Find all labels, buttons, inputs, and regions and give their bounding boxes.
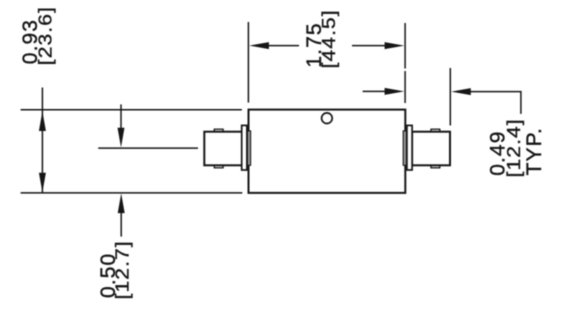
left connector flange xyxy=(242,125,247,170)
right connector barrel xyxy=(412,132,450,166)
arrowhead down centerline xyxy=(118,128,125,148)
main body xyxy=(249,110,406,193)
dim line 1.75 right segment xyxy=(352,45,387,47)
right connector gray collar xyxy=(403,131,406,165)
dimension line 0.93 vertical xyxy=(41,88,43,193)
arrowhead up 0.93 xyxy=(39,111,46,131)
centerline segment xyxy=(98,147,198,149)
dim text 0.93 xyxy=(19,6,56,65)
dim line 0.50 shaft xyxy=(120,213,122,237)
extension line 1.75 right xyxy=(404,23,406,69)
arrow right 0.49 xyxy=(363,90,386,92)
svg-text:[12.7]: [12.7] xyxy=(113,240,134,299)
left connector lug top xyxy=(214,129,223,132)
extension line 1.75 left xyxy=(247,22,249,103)
svg-text:[44.5]: [44.5] xyxy=(319,9,340,68)
dim line 1.75 left segment xyxy=(266,45,299,47)
extension line top edge left xyxy=(21,109,242,111)
left connector gray collar xyxy=(247,131,250,165)
dim text 0.49 TYP xyxy=(487,118,546,177)
svg-text:TYP.: TYP. xyxy=(523,127,546,175)
dim text 1.75 xyxy=(303,9,340,68)
arrowhead left 1.75 xyxy=(249,42,269,49)
body hole xyxy=(322,113,333,124)
arrowhead down 0.93 xyxy=(39,173,46,193)
right connector flange xyxy=(407,125,412,170)
arrowhead right 1.75 xyxy=(385,42,405,49)
dim text 0.50 xyxy=(97,240,133,299)
leader shaft centerline pointer xyxy=(120,104,122,128)
extension line bottom edge left xyxy=(21,192,243,194)
left connector lug bottom xyxy=(214,165,223,168)
svg-text:[23.6]: [23.6] xyxy=(35,6,56,65)
svg-text:[12.4]: [12.4] xyxy=(504,118,525,177)
arrow left 0.49 with leader xyxy=(451,88,471,95)
right connector lug bottom xyxy=(431,165,440,168)
right connector lug top xyxy=(431,129,440,132)
extension line 0.49 xyxy=(449,68,451,126)
left connector barrel xyxy=(204,132,242,166)
arrowhead up 0.50 xyxy=(118,193,125,213)
